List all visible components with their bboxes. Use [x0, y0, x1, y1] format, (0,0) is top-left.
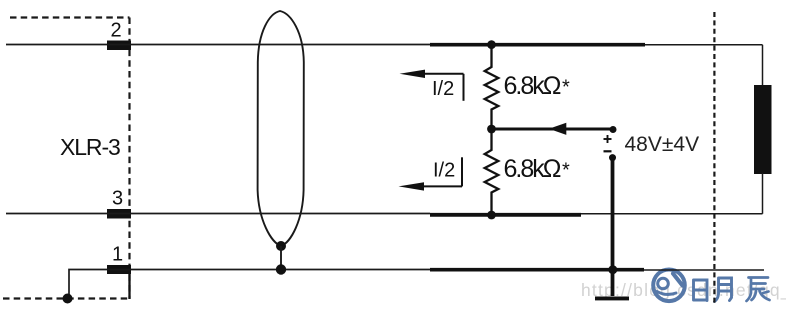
watermark char chen [747, 278, 770, 302]
arrowhead upper [400, 70, 426, 78]
wire pin2 hot line thin left [6, 44, 430, 46]
junction bottom node dot on cold line [487, 211, 496, 220]
ground symbol bar [595, 297, 629, 301]
junction shield bottom dot [276, 241, 286, 251]
svg-text:*: * [562, 160, 570, 182]
svg-text:2: 2 [111, 20, 122, 42]
junction shell dot on dashed bottom [63, 294, 73, 304]
wire shell segment below pin1 [128, 274, 130, 300]
wire supply negative down bold [611, 158, 615, 296]
XLR-3 connector dashed outline [3, 18, 130, 299]
boundary dashed line right [713, 12, 715, 303]
wire right vertical top to load [762, 45, 764, 86]
svg-text:1: 1 [112, 244, 123, 266]
wire pin1 ground line thin left [107, 269, 430, 271]
svg-text:6.8kΩ: 6.8kΩ [504, 155, 561, 183]
svg-text:48V±4V: 48V±4V [625, 133, 700, 156]
current arrow I/2 lower [409, 157, 462, 186]
watermark logo circle [653, 270, 685, 302]
supply minus sign [604, 150, 612, 152]
cable shield loop ellipse [258, 11, 304, 246]
wire pin2 hot line bold middle [430, 43, 645, 47]
pin 1 contact [107, 265, 131, 274]
current arrow I/2 upper [410, 74, 464, 101]
wire pin1 ground line thin right [644, 269, 764, 271]
pin 2 contact [107, 41, 131, 51]
arrowhead supply current [549, 123, 567, 135]
resistor R2 6.8k zigzag [485, 129, 499, 216]
watermark char ri [694, 280, 708, 301]
svg-text:I/2: I/2 [432, 78, 454, 100]
pin 3 contact [107, 209, 131, 219]
watermark char yue [715, 278, 732, 302]
svg-text:I/2: I/2 [433, 160, 455, 182]
wire pin1 shield drop to shell [69, 270, 107, 299]
supply negative terminal dot [609, 154, 616, 161]
junction middle node dot [487, 125, 496, 134]
supply positive terminal dot [610, 126, 617, 133]
wire pin3 cold line thin right [581, 213, 763, 215]
wire pin1 ground line bold middle [430, 268, 644, 272]
resistor R1 6.8k zigzag [485, 45, 499, 129]
wire pin2 hot line thin right [645, 44, 763, 46]
svg-text:XLR-3: XLR-3 [60, 134, 120, 160]
junction supply to ground wire dot [608, 265, 617, 274]
svg-text:*: * [562, 77, 570, 99]
wire pin3 cold line thin left [6, 213, 430, 215]
svg-text:3: 3 [112, 188, 123, 210]
wire node to supply [492, 128, 614, 131]
wire shield to pin1 link [280, 246, 282, 270]
arrowhead lower [399, 182, 425, 190]
junction shield on ground wire dot [276, 264, 286, 274]
svg-text:6.8kΩ: 6.8kΩ [504, 72, 561, 100]
supply plus sign [604, 135, 612, 143]
load resistor RL (input impedance bar) [754, 85, 772, 174]
wire pin3 cold line bold middle [430, 213, 581, 217]
junction node top dot [487, 40, 496, 49]
wire right vertical load to pin3 line [762, 173, 764, 214]
